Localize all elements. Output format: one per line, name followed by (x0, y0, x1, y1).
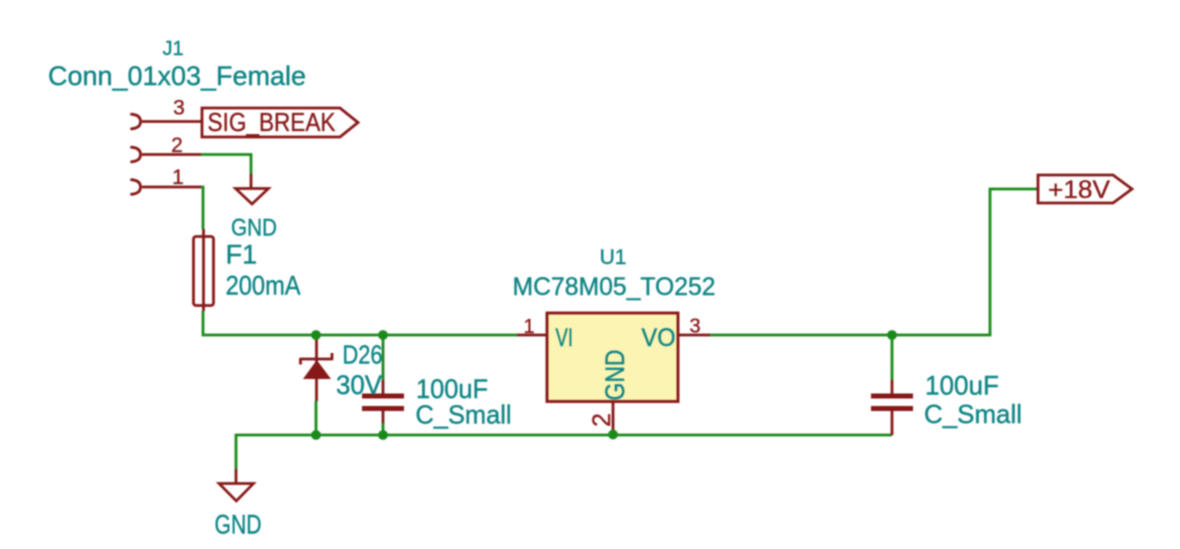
svg-text:2: 2 (171, 134, 183, 157)
svg-text:30V: 30V (336, 370, 382, 400)
svg-text:U1: U1 (600, 246, 627, 269)
svg-text:D26: D26 (343, 340, 383, 370)
svg-text:1: 1 (523, 316, 534, 338)
svg-text:GND: GND (215, 510, 262, 540)
svg-text:2: 2 (588, 413, 616, 427)
svg-text:1: 1 (172, 166, 184, 189)
svg-text:3: 3 (689, 316, 700, 338)
svg-text:Conn_01x03_Female: Conn_01x03_Female (48, 61, 306, 91)
svg-text:C_Small: C_Small (924, 399, 1022, 429)
svg-text:GND: GND (231, 215, 277, 242)
svg-text:200mA: 200mA (226, 271, 301, 301)
svg-text:3: 3 (173, 97, 185, 120)
svg-text:100uF: 100uF (925, 371, 999, 401)
svg-text:J1: J1 (162, 38, 183, 60)
svg-text:SIG_BREAK: SIG_BREAK (208, 107, 337, 137)
svg-text:+18V: +18V (1048, 176, 1110, 204)
svg-text:GND: GND (600, 350, 630, 401)
svg-text:VO: VO (642, 324, 676, 352)
svg-text:VI: VI (556, 324, 574, 352)
svg-text:C_Small: C_Small (416, 400, 512, 430)
svg-text:MC78M05_TO252: MC78M05_TO252 (513, 273, 716, 301)
svg-text:F1: F1 (226, 240, 258, 270)
